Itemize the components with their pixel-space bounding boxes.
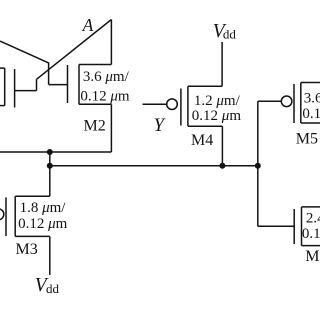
wire: diagonal input from left edge	[0, 41, 49, 63]
transistor M4 gate bar	[180, 89, 182, 126]
svg-text:0.12 μm: 0.12 μm	[192, 108, 242, 124]
wire: junction vertical link down to M3	[49, 152, 51, 196]
transistor M3 gate bubble	[0, 209, 4, 220]
wire: M2 source vertical down to upper rail	[110, 104, 112, 152]
wire: M1 gate lead horizontal	[15, 90, 37, 92]
transistor M3 source lead bottom	[15, 235, 50, 237]
transistor M4 drain lead top	[188, 85, 222, 87]
svg-text:0.12 μm: 0.12 μm	[18, 216, 68, 232]
transistor M2 drain lead top	[79, 64, 111, 66]
wire: vertical node line joining M5 and M6 gates	[257, 101, 259, 226]
svg-text:1.8 μm/: 1.8 μm/	[20, 200, 67, 216]
wire: M3 source vertical down to Vdd	[49, 236, 51, 275]
svg-text:0.12 μm: 0.12 μm	[80, 89, 130, 105]
transistor M3 drain lead top	[15, 195, 50, 197]
svg-text:2.4 μm/: 2.4 μm/	[306, 210, 320, 226]
transistor M6 channel bar	[301, 207, 303, 246]
wire: M2 gate lead horizontal	[49, 84, 68, 86]
svg-text:M2: M2	[84, 118, 106, 135]
transistor M5 channel bar	[300, 83, 302, 124]
transistor M6 gate bar	[293, 209, 295, 244]
svg-text:Y: Y	[154, 116, 166, 136]
wire: upper output rail	[0, 151, 111, 153]
junction dot upper rail	[47, 149, 53, 155]
transistor M4 source lead bottom	[188, 125, 223, 127]
transistor M6 drain lead top	[302, 206, 320, 208]
svg-text:0.12 μm: 0.12 μm	[302, 226, 320, 242]
transistor M4 channel bar	[187, 86, 189, 126]
transistor M1 channel bar	[4, 68, 6, 106]
svg-text:M3: M3	[16, 241, 38, 258]
svg-text:3.6 μm/: 3.6 μm/	[83, 69, 130, 85]
wire: M2 drain vertical up	[110, 20, 112, 65]
transistor M1 drain lead top	[0, 67, 5, 69]
wire: M5 gate lead horizontal	[258, 100, 282, 102]
svg-text:M6: M6	[305, 248, 320, 265]
transistor M2 gate bar	[67, 65, 69, 103]
transistor M4 gate bubble	[167, 99, 178, 110]
svg-text:dd: dd	[46, 281, 60, 296]
transistor M5 gate bubble	[281, 96, 292, 107]
svg-text:0.12 μm: 0.12 μm	[302, 106, 320, 122]
wire: M4 source vertical down to rail	[221, 126, 223, 166]
wire: Vdd lead down to M4	[221, 42, 223, 86]
svg-text:dd: dd	[223, 26, 237, 41]
transistor M2 source lead bottom	[79, 103, 111, 105]
transistor M3 channel bar	[14, 196, 16, 236]
svg-text:M4: M4	[191, 132, 213, 149]
wire: lower output rail	[50, 165, 258, 167]
transistor M1 gate bar	[14, 69, 16, 107]
transistor M2 channel bar	[78, 65, 80, 105]
wire: diagonal to input A label	[37, 20, 112, 80]
svg-text:A: A	[82, 15, 94, 35]
transistor M5 gate bar	[293, 84, 295, 123]
transistor M5 drain lead top	[301, 82, 320, 84]
svg-text:3.6 μm/: 3.6 μm/	[304, 90, 320, 106]
transistor M3 gate bar	[5, 197, 7, 236]
wire: vertical from A diagonal to M1 gate lead	[36, 79, 38, 90]
svg-text:1.2 μm/: 1.2 μm/	[194, 93, 241, 109]
wire: vertical down to M2 gate lead	[48, 62, 50, 84]
wire: Y input lead to M4 gate	[143, 103, 167, 105]
junction dot rail right end	[255, 163, 261, 169]
transistor M1 source lead bottom	[0, 105, 5, 107]
wire: M6 gate lead horizontal	[258, 225, 294, 227]
svg-text:M5: M5	[296, 131, 318, 148]
transistor M5 source lead bottom	[301, 122, 320, 124]
junction dot M4 source at rail	[219, 163, 225, 169]
transistor M6 source lead bottom	[302, 245, 320, 247]
junction dot lower rail left	[47, 163, 53, 169]
